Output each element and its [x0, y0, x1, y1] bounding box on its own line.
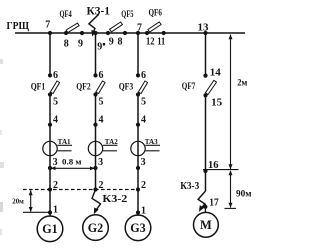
- svg-text:G3: G3: [130, 221, 146, 235]
- svg-text:7: 7: [137, 22, 142, 33]
- svg-text:4: 4: [99, 114, 104, 125]
- svg-text:ТА3: ТА3: [145, 137, 158, 146]
- svg-text:15: 15: [211, 97, 222, 108]
- svg-text:11: 11: [157, 36, 165, 47]
- svg-text:QF5: QF5: [121, 9, 134, 19]
- svg-text:7: 7: [45, 20, 50, 31]
- svg-text:К3-1: К3-1: [87, 6, 111, 18]
- svg-text:3: 3: [98, 157, 103, 168]
- svg-text:17: 17: [209, 198, 219, 209]
- svg-text:QF1: QF1: [31, 82, 46, 92]
- svg-text:5: 5: [99, 96, 104, 107]
- svg-text:G2: G2: [88, 221, 104, 235]
- svg-text:ГРЩ: ГРЩ: [7, 20, 30, 32]
- svg-text:6: 6: [53, 70, 58, 81]
- svg-text:9: 9: [97, 41, 102, 52]
- svg-text:8: 8: [64, 39, 69, 50]
- svg-text:12: 12: [146, 36, 155, 47]
- svg-text:0.8 м: 0.8 м: [62, 158, 82, 167]
- svg-text:2: 2: [141, 180, 146, 191]
- svg-text:14: 14: [210, 67, 222, 78]
- svg-text:QF2: QF2: [76, 82, 91, 92]
- svg-text:4: 4: [53, 114, 58, 125]
- svg-text:1: 1: [53, 204, 58, 215]
- svg-text:3: 3: [53, 157, 58, 168]
- svg-text:4: 4: [141, 114, 146, 125]
- svg-text:9: 9: [78, 39, 83, 50]
- svg-text:6: 6: [141, 70, 146, 81]
- svg-text:К3-3: К3-3: [180, 181, 199, 192]
- svg-text:G1: G1: [42, 222, 58, 236]
- svg-text:QF4: QF4: [60, 9, 73, 19]
- svg-text:2м: 2м: [237, 78, 247, 88]
- svg-text:13: 13: [198, 23, 209, 34]
- svg-text:90м: 90м: [236, 189, 252, 199]
- svg-text:5: 5: [141, 96, 146, 107]
- svg-text:К3-2: К3-2: [102, 194, 127, 205]
- svg-text:М: М: [200, 218, 212, 232]
- svg-text:ТА1: ТА1: [58, 137, 71, 146]
- svg-text:9: 9: [109, 36, 114, 47]
- svg-text:QF7: QF7: [182, 81, 196, 91]
- svg-text:5: 5: [53, 96, 58, 107]
- svg-text:20м: 20м: [12, 197, 23, 206]
- svg-text:QF6: QF6: [149, 8, 163, 18]
- svg-text:3: 3: [141, 157, 146, 168]
- svg-text:QF3: QF3: [119, 82, 134, 92]
- svg-text:8: 8: [118, 36, 123, 47]
- svg-text:ТА2: ТА2: [105, 137, 118, 146]
- svg-text:6: 6: [99, 70, 104, 81]
